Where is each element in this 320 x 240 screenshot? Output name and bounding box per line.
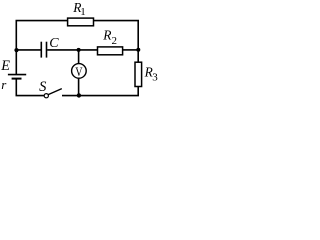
wire left upper (to battery) [15, 50, 17, 74]
switch S blade [48, 89, 62, 95]
svg-text:3: 3 [152, 71, 158, 83]
svg-text:S: S [39, 79, 47, 95]
wire top-right segment [94, 21, 139, 50]
wire middle branch center [47, 49, 97, 51]
svg-text:C: C [49, 36, 59, 51]
wire voltmeter top stub [78, 50, 80, 64]
voltmeter U (V) [72, 64, 87, 79]
wire voltmeter bottom stub [78, 79, 80, 96]
node A (left junction) [14, 48, 18, 52]
capacitor C left plate [40, 42, 42, 58]
svg-text:V: V [75, 65, 82, 79]
wire right (junction to R3) [137, 50, 139, 62]
capacitor C right plate [46, 42, 48, 58]
wire top-left segment [16, 21, 67, 50]
svg-text:E: E [0, 58, 10, 74]
battery E long plate [8, 74, 26, 76]
resistor R3 [135, 62, 142, 86]
svg-text:1: 1 [80, 6, 86, 18]
resistor R1 [68, 18, 94, 26]
wire bottom segment [62, 87, 138, 96]
wire middle branch right [123, 49, 139, 51]
svg-text:R: R [102, 28, 111, 43]
node D (bottom junction) [77, 93, 81, 97]
node C (right junction) [136, 48, 140, 52]
svg-text:2: 2 [112, 35, 118, 47]
wire middle branch left [17, 49, 41, 51]
switch S pivot circle [44, 94, 48, 98]
node B (voltmeter tap) [77, 48, 81, 52]
battery E short plate [12, 78, 22, 80]
wire left lower (battery to corner) [16, 79, 44, 96]
resistor R2 [98, 47, 123, 55]
